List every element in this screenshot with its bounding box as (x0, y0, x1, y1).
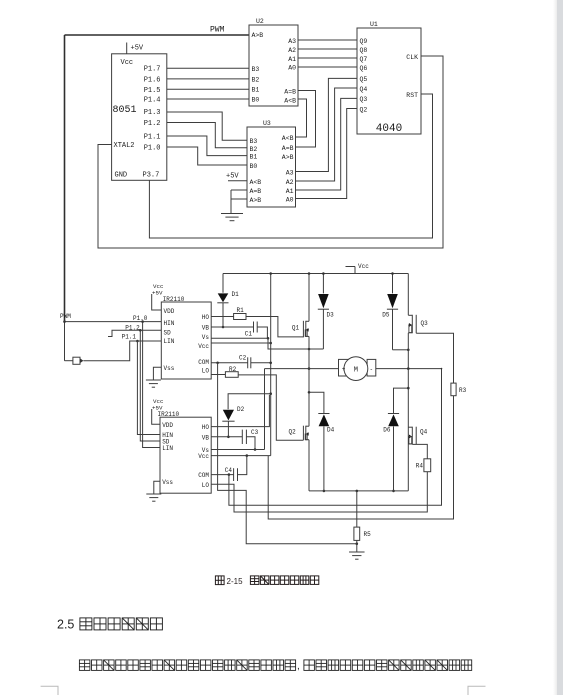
svg-text:A2: A2 (286, 179, 294, 186)
wire D5 anode to right leg (393, 349, 409, 351)
svg-text:B2: B2 (252, 77, 260, 84)
svg-text:Q6: Q6 (360, 65, 368, 72)
wire U3 A1 to U1 Q3 (296, 98, 358, 190)
svg-text:A3: A3 (286, 170, 294, 177)
svg-text:IR2110: IR2110 (158, 411, 180, 418)
svg-text:HIN: HIN (164, 320, 175, 327)
wire Q1 drain to rail (308, 274, 310, 322)
svg-text:Q4: Q4 (360, 86, 368, 93)
wire Q1 source / left phase leg (308, 336, 310, 426)
wire LIN net branch down to HIN of U5 (136, 340, 139, 343)
svg-text:A0: A0 (286, 197, 294, 204)
svg-text:D5: D5 (382, 312, 390, 319)
svg-text:+5V: +5V (226, 173, 239, 181)
svg-text:U2: U2 (256, 18, 264, 25)
svg-text:2.5: 2.5 (57, 618, 74, 632)
wire PWM continues down to input network (64, 322, 66, 361)
diode D5 freewheel upper-right (392, 274, 394, 294)
svg-text:Vcc: Vcc (198, 343, 209, 350)
svg-text:CLK: CLK (406, 54, 418, 61)
svg-text:VDD: VDD (162, 422, 173, 429)
svg-text:COM: COM (198, 472, 209, 479)
wire box output up to LIN of U4 (83, 341, 161, 361)
svg-text:GND: GND (115, 171, 128, 179)
svg-text:Q2: Q2 (289, 429, 297, 436)
wire U3 A0 to U1 Q2 (296, 109, 358, 199)
svg-text:Q7: Q7 (360, 56, 368, 63)
resistor R5 shunt (356, 490, 359, 493)
svg-text:VB: VB (202, 325, 210, 332)
svg-text:R5: R5 (364, 531, 372, 538)
svg-text:8051: 8051 (113, 105, 137, 116)
svg-text:IR2110: IR2110 (163, 296, 185, 303)
wire U2 A<B to U3 A<B (296, 99, 307, 137)
wire right bridge leg vertical (407, 274, 409, 316)
wire U2 A1 to U1 Q7 (298, 57, 357, 59)
wire P1.6 to U2 B2 (167, 78, 249, 80)
svg-text:A=B: A=B (250, 188, 262, 195)
wire C1 to Vs node (257, 327, 267, 338)
text boundary mark bottom-left (41, 686, 58, 695)
wire U5 HO up alongside rail vertical (211, 395, 269, 427)
wire rail vertical down to U5 Vcc (270, 274, 272, 456)
svg-text:A<B: A<B (284, 98, 296, 105)
svg-text:-: - (369, 366, 373, 373)
wire U2 A3 to U1 Q9 (298, 39, 357, 41)
wire SD net branch down to SD of U5 (139, 329, 142, 332)
svg-text:B0: B0 (252, 97, 260, 104)
wire Q3 gate to R3 (416, 333, 453, 383)
svg-text:B1: B1 (250, 154, 258, 161)
wire bottom bridge rail (309, 490, 408, 492)
wire P1.3 to U3 B3 (167, 112, 247, 140)
svg-text:D6: D6 (383, 427, 391, 434)
wire U5 Vcc branch to R3 bottom (268, 396, 453, 519)
svg-text:A>B: A>B (252, 32, 264, 39)
svg-text:PWM: PWM (60, 313, 71, 320)
wire U5 LO to R4 bottom (211, 472, 427, 512)
svg-text:Q1: Q1 (292, 325, 300, 332)
svg-text:VDD: VDD (164, 308, 175, 315)
svg-text:+: + (342, 366, 346, 373)
svg-text:U3: U3 (263, 120, 271, 127)
svg-text:+5V: +5V (131, 45, 144, 53)
svg-text:R4: R4 (416, 463, 424, 470)
wire HIN net branch down to LIN of U5 (141, 320, 144, 323)
wire P1.1 to U3 B1 (167, 136, 247, 156)
wire R2 to Q2 gate (238, 375, 303, 440)
wire P3.7 to U1 RST (149, 94, 432, 238)
svg-text:D2: D2 (237, 406, 245, 413)
transistor Q2 low-side left MOSFET (302, 426, 304, 441)
diode D2 bootstrap for U5 (228, 394, 271, 410)
transistor Q3 high-side right MOSFET (415, 315, 417, 333)
svg-text:A=B: A=B (282, 145, 294, 152)
wire P1.4 to U2 B0 (167, 98, 249, 100)
power rail Vcc top (223, 273, 408, 275)
svg-text:,: , (297, 661, 300, 672)
svg-text:C3: C3 (251, 429, 259, 436)
svg-text:Vcc: Vcc (358, 263, 369, 270)
svg-text:P1.5: P1.5 (144, 87, 161, 95)
svg-text:Vs: Vs (202, 334, 210, 341)
svg-text:D1: D1 (232, 291, 240, 298)
wire SD input elbow (P1.2 net) (108, 330, 161, 336)
svg-text:R1: R1 (237, 307, 245, 314)
capacitor C4 decoupling for U5 (211, 474, 233, 476)
resistor R4 (424, 459, 431, 472)
power Vcc symbol (354, 267, 356, 274)
power +5V tick above 8051 (126, 43, 128, 54)
svg-text:R2: R2 (229, 366, 237, 373)
svg-text:A1: A1 (286, 188, 294, 195)
wire PWM vertical down the left side (64, 35, 66, 322)
svg-text:P1.2: P1.2 (144, 120, 161, 128)
svg-text:+5V: +5V (152, 405, 163, 412)
svg-text:P1.4: P1.4 (144, 97, 161, 105)
driver U5 IR2110 box (160, 417, 211, 493)
ground below U4 Vss (146, 379, 161, 381)
svg-text:RST: RST (406, 92, 418, 99)
svg-text:C4: C4 (225, 467, 233, 474)
svg-text:A<B: A<B (282, 135, 294, 142)
ground below R5 (349, 551, 365, 553)
transistor Q4 low-side right MOSFET (415, 427, 417, 445)
svg-text:A>B: A>B (282, 154, 294, 161)
wire PWM to HIN of U4 (P1.0 net) (65, 321, 162, 323)
svg-text:P1.7: P1.7 (144, 66, 161, 74)
wire U5 COM to motor right feedback (228, 473, 231, 476)
svg-text:P1.0: P1.0 (144, 145, 161, 153)
svg-text:P1.0: P1.0 (133, 315, 148, 322)
wire XTAL2 to U1 CLK (98, 56, 443, 248)
svg-text:Q3: Q3 (360, 96, 368, 103)
svg-text:VB: VB (202, 434, 210, 441)
transistor Q1 high-side left MOSFET (302, 321, 304, 337)
svg-text:R3: R3 (459, 387, 467, 394)
wire U5 Vss to ground (154, 481, 160, 494)
capacitor C2 decoupling (211, 362, 248, 364)
wire Vs sense vertical up to motor wire (264, 369, 266, 450)
comparator U3 box (247, 127, 296, 207)
svg-text:Q5: Q5 (360, 76, 368, 83)
svg-text:D4: D4 (327, 427, 335, 434)
power Vcc +5V at U5 VDD (152, 409, 160, 424)
svg-text:+5V: +5V (152, 290, 163, 297)
wire U5 Vcc pin to rail vertical (211, 455, 271, 457)
text boundary mark bottom-right (468, 686, 486, 695)
wire U3 A2 to U1 Q4 (296, 88, 358, 181)
svg-text:B1: B1 (252, 87, 260, 94)
svg-text:A0: A0 (288, 65, 296, 72)
svg-text:P1.3: P1.3 (144, 109, 161, 117)
svg-text:LIN: LIN (162, 445, 173, 452)
svg-text:4040: 4040 (376, 123, 402, 135)
svg-text:Q8: Q8 (360, 47, 368, 54)
svg-text:LIN: LIN (164, 338, 175, 345)
resistor R1 gate resistor (211, 316, 233, 318)
diode D1 bootstrap (222, 274, 224, 293)
wire U5 Vs to motor left node (211, 449, 264, 451)
svg-text:Vcc: Vcc (121, 59, 134, 67)
svg-text:2-15: 2-15 (227, 577, 244, 586)
resistor R3 (451, 383, 456, 396)
wire P1.0 to U3 B0 (167, 147, 247, 165)
svg-text:Vss: Vss (164, 365, 175, 372)
svg-text:Q3: Q3 (421, 320, 429, 327)
wire U3 A3 to U1 Q5 (296, 78, 358, 171)
ic 8051 box (112, 54, 167, 181)
wire motor right to right leg and feedback (376, 368, 442, 370)
motor M with brush boxes (265, 368, 339, 370)
wire PWM net from 8051 area to U2 A>B (thick top line) (65, 34, 250, 36)
svg-text:LO: LO (202, 367, 210, 374)
svg-text:XTAL2: XTAL2 (114, 142, 135, 150)
wire U4 Vcc to rail vertical (211, 342, 271, 344)
ground below U5 Vss (146, 493, 161, 495)
svg-text:B3: B3 (250, 138, 258, 145)
svg-text:PWM: PWM (210, 26, 225, 35)
svg-text:HO: HO (202, 424, 210, 431)
svg-text:A<B: A<B (250, 179, 262, 186)
svg-text:A>B: A>B (250, 197, 262, 204)
wire U4 Vss to ground (153, 367, 161, 380)
wire U2 A2 to U1 Q8 (298, 48, 357, 50)
component input coupling box with output mark (73, 357, 80, 364)
wire U2 A0 to U1 Q6 (298, 66, 357, 68)
wire R1 to Q1 gate (246, 317, 304, 337)
svg-text:B2: B2 (250, 146, 258, 153)
svg-text:Vcc: Vcc (198, 453, 209, 460)
svg-text:Q4: Q4 (420, 429, 428, 436)
svg-text:A3: A3 (288, 38, 296, 45)
svg-text:SD: SD (164, 329, 172, 336)
wire COM U4 down to ground return (218, 363, 357, 544)
comparator U2 box (249, 25, 298, 106)
svg-text:B0: B0 (250, 163, 258, 170)
svg-text:P1.1: P1.1 (144, 134, 161, 142)
driver U4 IR2110 box (161, 302, 211, 379)
svg-text:HO: HO (202, 314, 210, 321)
counter U1 box (357, 28, 421, 134)
svg-text:A1: A1 (288, 56, 296, 63)
wire P1.7 to U2 B3 (167, 67, 249, 69)
wire Q4 source to R4 (412, 444, 427, 458)
svg-text:U1: U1 (370, 21, 378, 28)
capacitor C1 bootstrap (211, 326, 253, 328)
wire U3 A=B,A>B tied to ground (231, 189, 247, 191)
diode D4 freewheel lower-left (309, 392, 324, 413)
wire P1.2 to U3 B2 (167, 123, 247, 148)
diode D3 freewheel upper-left (322, 274, 324, 294)
diode D6 freewheel lower-right (394, 388, 409, 413)
svg-text:C1: C1 (245, 331, 253, 338)
svg-text:A2: A2 (288, 47, 296, 54)
svg-text:P3.7: P3.7 (143, 171, 160, 179)
resistor R2 gate resistor (211, 374, 225, 376)
svg-text:A=B: A=B (284, 89, 296, 96)
svg-text:P1.6: P1.6 (144, 76, 161, 84)
capacitor C3 bootstrap for U5 (211, 436, 242, 438)
svg-text:Q9: Q9 (360, 38, 368, 45)
ground below U3 (221, 213, 243, 215)
wire Q2 source to bottom rail (308, 440, 310, 491)
wire U4 Vs to phase node (211, 337, 268, 339)
wire P1.5 to U2 B1 (167, 88, 249, 90)
svg-text:Vss: Vss (162, 479, 173, 486)
svg-text:Q2: Q2 (360, 107, 368, 114)
svg-text:M: M (354, 367, 358, 375)
power Vcc +5V at U4 VDD (152, 294, 162, 310)
caption figure 2-15 (215, 576, 224, 585)
wire U2 A=B to U3 A=B (296, 91, 316, 148)
body paragraph text (79, 660, 295, 671)
svg-text:D3: D3 (327, 312, 335, 319)
svg-text:C2: C2 (239, 355, 247, 362)
svg-text:COM: COM (198, 359, 209, 366)
svg-text:LO: LO (202, 482, 210, 489)
svg-text:P1.2: P1.2 (125, 324, 140, 331)
svg-text:B3: B3 (252, 66, 260, 73)
svg-text:P1.1: P1.1 (122, 334, 137, 341)
